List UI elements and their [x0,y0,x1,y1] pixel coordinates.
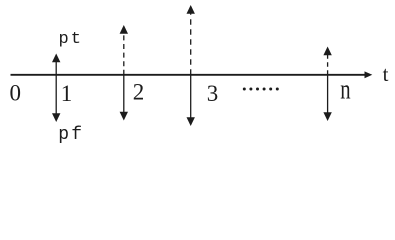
solid up arrow at point 1 [52,54,60,75]
svg-text:2: 2 [133,80,145,105]
solid down arrow at point n [323,75,331,121]
svg-text:pt: pt [59,30,83,49]
solid down arrow at point 2 [120,75,128,121]
solid down arrow at point 3 [187,75,195,126]
ellipsis dots [243,88,279,91]
svg-text:0: 0 [9,80,21,105]
dashed up arrow at point 2 [120,25,128,75]
solid down arrow at point 1 (pf) [52,75,60,122]
svg-text:pf: pf [58,125,84,145]
svg-text:n: n [340,75,350,106]
dashed up arrow at point n [323,47,331,75]
svg-text:t: t [383,62,389,86]
svg-text:1: 1 [61,81,73,106]
dashed up arrow at point 3 [187,5,195,75]
time axis t [11,71,373,78]
svg-text:3: 3 [207,81,219,106]
